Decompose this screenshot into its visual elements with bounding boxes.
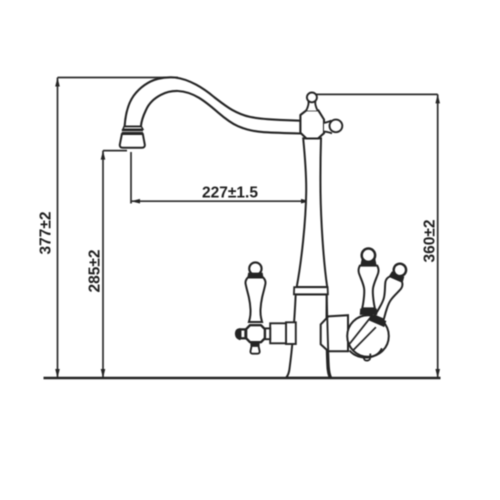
left outlet dark blob (235, 328, 241, 340)
arrow 285 bottom (101, 369, 106, 378)
aerator flare (123, 127, 143, 130)
socket diagonal 1 (350, 315, 373, 344)
arrow 360 top (435, 94, 440, 103)
front lever ring (362, 249, 375, 262)
ext line top-right (316, 93, 438, 95)
dim line 360 vertical (437, 94, 439, 378)
right knob neck (324, 121, 332, 134)
ext line 227 left vertical (130, 152, 132, 204)
front lever dark bottom collar (360, 309, 378, 315)
body bottom lip (350, 348, 382, 357)
baseline (44, 377, 441, 380)
top knob neck (306, 101, 317, 110)
collar (294, 287, 328, 294)
svg-text:360±2: 360±2 (422, 220, 439, 263)
right valve circle (347, 315, 389, 357)
left hub (246, 325, 265, 342)
top knob ball (307, 93, 317, 103)
left connector rect B (286, 322, 296, 344)
right valve hex cap (321, 315, 348, 351)
left handle dark collar (247, 273, 263, 278)
arrow 377 bottom (55, 369, 60, 378)
left connector rect A (270, 323, 286, 343)
column right edge over hex (327, 295, 332, 378)
front lever baluster (359, 266, 379, 309)
left tail dark band (250, 342, 259, 345)
left handle ball (249, 262, 261, 274)
dim line 377 vertical (57, 78, 59, 379)
left handle baluster (245, 278, 265, 323)
left connector step (265, 328, 270, 339)
centerline 227 right (309, 197, 311, 241)
swivel octagon body (300, 110, 324, 138)
faucet spout tube (125, 77, 301, 133)
ext line aerator 285 (103, 150, 127, 152)
rear tilted lever (368, 261, 410, 327)
aerator cone (120, 134, 145, 148)
left outlet white box (240, 329, 245, 338)
arrow 227 right (301, 199, 310, 204)
svg-text:227±1.5: 227±1.5 (202, 185, 258, 202)
body bottom tail (363, 354, 370, 361)
arrow 377 top (55, 78, 60, 87)
arrow 285 top (101, 151, 106, 160)
column upper (between swivel body and collar) (297, 138, 328, 287)
dim line 285 vertical (102, 151, 104, 378)
arrow 360 bottom (435, 369, 440, 378)
lower body (286, 295, 329, 378)
left tail (250, 346, 259, 354)
aerator band dark (122, 129, 143, 131)
svg-text:377±2: 377±2 (38, 212, 55, 255)
dim line 227 horizontal (131, 200, 310, 202)
svg-text:285±2: 285±2 (87, 250, 104, 293)
ext line top-left (58, 77, 179, 79)
right knob ball (330, 120, 343, 133)
socket diagonal 2 (353, 327, 376, 350)
front lever dark top collar (360, 259, 376, 265)
arrow 227 left (131, 199, 140, 204)
